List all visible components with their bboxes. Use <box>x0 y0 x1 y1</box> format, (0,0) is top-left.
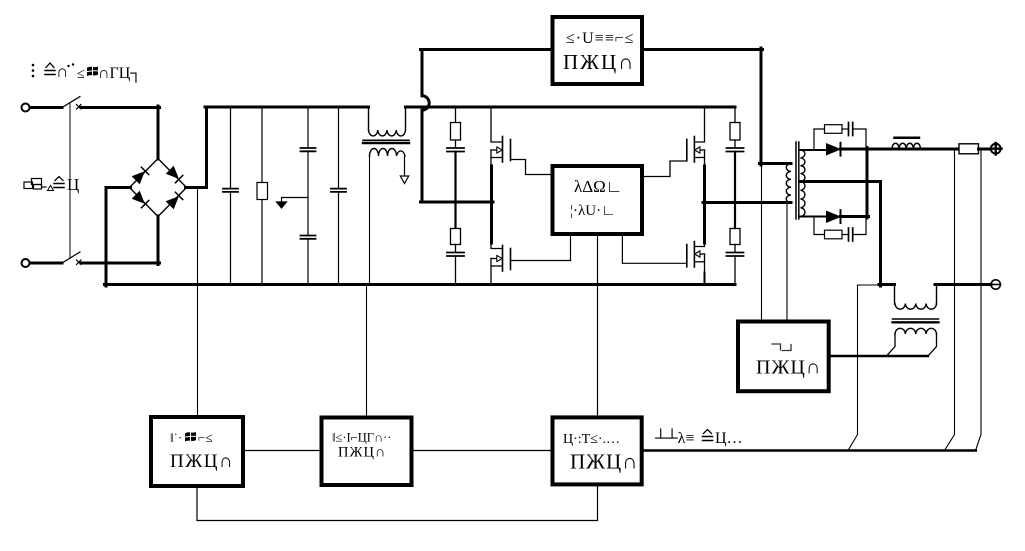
current transformer T2 secondary <box>895 328 936 334</box>
wire center tap <box>801 182 881 287</box>
switch S1 blade <box>62 97 80 108</box>
resistor R4 <box>730 108 740 148</box>
node dots <box>67 63 74 67</box>
icon flag 2 <box>185 432 196 441</box>
wire sense primary bottom <box>786 204 788 322</box>
node right midpoint <box>703 166 706 243</box>
svg-text:∩ΓЦ┐: ∩ΓЦ┐ <box>98 65 142 84</box>
node delta sub <box>48 186 54 191</box>
node left midpoint <box>490 166 493 243</box>
wire control pin1 <box>570 234 572 261</box>
svg-text:┴┴λ≡: ┴┴λ≡ <box>654 428 694 447</box>
transistor Q2 <box>491 243 571 285</box>
current transformer T2 core <box>893 318 939 320</box>
node corresponds sign 2 <box>54 184 64 188</box>
wire block1 bottom loop <box>197 484 598 520</box>
sense resistor R8 <box>959 144 979 154</box>
wire <box>841 215 869 218</box>
inductor L1 core <box>363 139 409 141</box>
bridge diode D2 <box>166 166 182 182</box>
wire <box>81 106 160 109</box>
svg-text:ΠЖЦ∩: ΠЖЦ∩ <box>756 357 821 379</box>
wire <box>853 218 866 235</box>
snubber R7 <box>814 218 848 239</box>
wire <box>454 152 456 229</box>
svg-text:ΠЖЦ∩: ΠЖЦ∩ <box>170 451 234 472</box>
output terminal plus <box>991 144 1001 154</box>
svg-text:Ц·:Τ≤·.…: Ц·:Τ≤·.… <box>563 432 620 447</box>
capacitor C1 <box>223 108 238 284</box>
resistor R5 <box>730 229 740 253</box>
svg-text:‖˙·: ‖˙· <box>170 430 182 445</box>
capacitor C7 <box>727 148 744 152</box>
wire <box>853 129 866 148</box>
wire control pin2 to block3 <box>597 234 599 417</box>
wire sense primary top <box>761 165 763 322</box>
switch S2 contact x <box>77 260 82 265</box>
switch S2 blade <box>62 252 80 263</box>
wire DC minus <box>106 188 131 287</box>
wire bridge mid right <box>703 201 791 204</box>
transformer T1 secondary upper <box>801 150 805 181</box>
diode D6 <box>827 211 841 222</box>
wire top block right <box>642 48 763 51</box>
wire resonant block left leg with hop <box>421 50 424 203</box>
label B4 line1 corners <box>772 344 791 351</box>
top bus left <box>205 106 369 109</box>
current transformer lead <box>894 285 896 305</box>
svg-text:ΠЖЦ∩: ΠЖЦ∩ <box>338 445 386 461</box>
transformer T1 secondary lower <box>801 182 805 217</box>
wire secondary bottom lead <box>801 216 828 218</box>
svg-text:‖≤·Ι⌐ЦΓ∩··: ‖≤·Ι⌐ЦΓ∩·· <box>332 431 391 445</box>
transistor Q1 <box>491 107 553 175</box>
icon small boxes <box>24 179 46 190</box>
ground <box>277 198 309 209</box>
wire <box>879 283 895 286</box>
capacitor C5 <box>447 148 464 152</box>
wire secondary right <box>404 156 406 176</box>
inductor L2 <box>892 143 920 149</box>
inductor L2 core <box>895 137 920 140</box>
transformer T1 primary winding <box>786 164 791 203</box>
wire <box>734 256 736 284</box>
svg-text:∩: ∩ <box>56 62 68 81</box>
icon flag 1 <box>87 67 98 76</box>
switch gang link <box>69 104 71 258</box>
wire <box>30 106 62 109</box>
wire control pin3 <box>622 234 686 263</box>
resistor R1 <box>257 108 268 284</box>
svg-text:⌐≤: ⌐≤ <box>198 430 212 445</box>
snubber C10 <box>849 228 853 241</box>
bridge diode D1 <box>132 167 148 183</box>
input terminal L <box>22 104 30 112</box>
wire <box>157 216 160 265</box>
wire cathode join <box>866 148 869 219</box>
wire DC plus <box>186 107 207 188</box>
top bus right <box>406 106 736 109</box>
block B1 <box>151 417 243 486</box>
capacitor C2 <box>301 108 316 235</box>
sense wire 1 <box>945 150 955 451</box>
bridge diode D3 <box>132 191 148 207</box>
switch S1 contact x <box>77 105 82 110</box>
wire block1-block2 <box>243 450 322 452</box>
wire <box>81 262 160 265</box>
svg-text:≤·U≡≡⌐≤: ≤·U≡≡⌐≤ <box>566 30 635 47</box>
resistor R3 <box>451 229 461 253</box>
wire to minus terminal <box>935 283 991 286</box>
inductor L1 secondary <box>370 149 406 156</box>
svg-text:ΠЖЦ∩: ΠЖЦ∩ <box>570 450 638 474</box>
wire secondary top lead <box>801 149 828 151</box>
input terminal N <box>22 259 30 267</box>
block B3 <box>553 417 642 484</box>
snubber C9 <box>849 123 853 136</box>
svg-text:λΔΩ∟: λΔΩ∟ <box>574 177 622 196</box>
wire block2-block3 <box>412 450 553 452</box>
node corresponds sign 1 <box>45 71 55 75</box>
arrow down <box>400 176 408 184</box>
wire secondary right <box>928 334 937 356</box>
wire aux tap to block1 <box>197 188 199 418</box>
wire secondary left <box>887 334 896 356</box>
wire bridge mid left <box>421 201 494 204</box>
capacitor C8 <box>727 253 744 257</box>
svg-text:Ц…: Ц… <box>715 430 743 447</box>
svg-text:≤: ≤ <box>77 67 85 82</box>
wire <box>455 256 457 284</box>
svg-text:¦·λU·∟: ¦·λU·∟ <box>570 203 616 219</box>
block B4 feedback <box>738 322 829 392</box>
capacitor C3 <box>301 236 316 285</box>
block B2 <box>322 418 412 486</box>
sense wire 3 <box>848 285 881 451</box>
svg-text:ΠЖЦ∩: ΠЖЦ∩ <box>563 50 635 74</box>
wire <box>936 285 938 305</box>
wire top block left <box>421 48 553 51</box>
capacitor C4 <box>331 108 346 284</box>
feedback bus <box>642 449 976 452</box>
wire <box>157 106 160 159</box>
node corresponds sign 3 <box>703 437 713 441</box>
bottom bus <box>105 283 736 286</box>
wire to transformer primary top <box>760 162 792 165</box>
diode D5 <box>827 144 841 155</box>
inductor L1 primary <box>369 107 406 136</box>
block resonant top <box>553 17 643 84</box>
output terminal minus <box>991 280 1000 289</box>
transistor Q4 <box>687 242 705 285</box>
wire secondary left down to block2 <box>367 156 370 418</box>
wire pair to feedback block <box>829 355 928 357</box>
transformer T1 core <box>795 142 797 219</box>
wire right leg down <box>760 48 763 165</box>
transistor Q3 <box>642 107 705 177</box>
bridge diode D4 <box>166 192 182 208</box>
snubber R6 <box>814 125 848 149</box>
svg-text:Ц: Ц <box>67 175 79 194</box>
node dots vertical ellipsis top-left <box>32 64 35 78</box>
wire <box>30 262 62 265</box>
wire hop <box>422 96 429 110</box>
wire <box>979 148 991 151</box>
output rail <box>841 148 961 151</box>
current transformer T2 primary <box>895 304 936 310</box>
block control <box>553 166 643 234</box>
sense wire 2 <box>976 150 982 451</box>
capacitor C6 <box>447 253 464 257</box>
wire <box>734 152 736 229</box>
bridge rectifier edges <box>130 159 187 217</box>
resistor R2 <box>451 108 461 148</box>
